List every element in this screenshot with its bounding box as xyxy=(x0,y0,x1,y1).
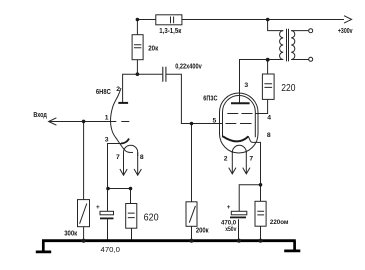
wire secondary bottom lead xyxy=(291,59,309,61)
svg-text:7: 7 xyxy=(249,155,253,162)
arrow +300v xyxy=(344,16,352,23)
svg-text:6П3С: 6П3С xyxy=(203,96,217,103)
wire screen resistor bottom to pin4 xyxy=(255,99,267,113)
node cathode1 left xyxy=(106,187,110,191)
svg-text:470,0: 470,0 xyxy=(101,247,121,254)
ground bus xyxy=(42,239,296,242)
wire input line xyxy=(50,121,116,123)
tube 6N8S envelope arc xyxy=(111,88,134,153)
svg-text:5: 5 xyxy=(213,118,217,125)
svg-text:Вход: Вход xyxy=(33,112,47,119)
resistor 300k xyxy=(78,200,90,227)
resistor 220 screen xyxy=(262,74,274,99)
node B+ / primary xyxy=(266,18,270,22)
wire anode node to coupling cap xyxy=(137,73,162,75)
tube 6P3S inner envelope xyxy=(223,96,256,138)
wire 20k top lead xyxy=(136,20,138,35)
svg-text:+: + xyxy=(96,204,100,211)
resistor 200k xyxy=(186,202,197,227)
svg-text:6Н8С: 6Н8С xyxy=(96,89,111,96)
wire cathode2 to junction xyxy=(248,136,260,185)
svg-text:1,3-1,5к: 1,3-1,5к xyxy=(159,28,181,35)
resistor 620 xyxy=(126,204,137,229)
wire anode lead 6N8S xyxy=(123,74,138,102)
svg-text:7: 7 xyxy=(116,154,120,161)
svg-text:х50v: х50v xyxy=(225,226,237,233)
arrow input xyxy=(49,118,57,125)
tube 6N8S heater arrow 8 xyxy=(134,152,141,175)
ground bus right hook xyxy=(284,241,300,251)
wire primary top drop xyxy=(268,20,284,31)
node B+ / 20k xyxy=(136,18,140,22)
wire B+ rail top xyxy=(137,19,344,21)
transformer core xyxy=(287,29,289,62)
terminal bottom xyxy=(309,57,313,61)
terminal top xyxy=(309,29,313,33)
wire secondary top lead xyxy=(291,30,309,32)
resistor 20k xyxy=(132,35,143,60)
capacitor 0,22x400v xyxy=(163,67,166,82)
svg-text:620: 620 xyxy=(144,212,159,224)
tube 6P3S outer envelope xyxy=(220,93,259,153)
svg-text:3: 3 xyxy=(105,137,109,144)
svg-text:8: 8 xyxy=(140,154,144,161)
capacitor 470,0 x50v electrolytic xyxy=(227,204,247,218)
wire cathode1 xyxy=(108,144,131,189)
svg-text:+: + xyxy=(227,204,231,211)
wire 620 top lead xyxy=(130,189,132,204)
svg-text:4: 4 xyxy=(267,114,271,121)
wire 220om top lead xyxy=(260,185,262,202)
tube 6P3S heater arch xyxy=(232,145,246,153)
svg-text:2: 2 xyxy=(116,86,120,93)
node grid1 xyxy=(82,120,86,124)
svg-text:8: 8 xyxy=(267,132,271,139)
resistor 220om xyxy=(255,201,266,226)
wire 220om bottom lead xyxy=(260,226,262,240)
wire 20k bottom lead xyxy=(136,60,138,74)
tube 6N8S heater arrow 7 xyxy=(120,152,127,175)
tube 6P3S heater arrow 2 xyxy=(229,152,236,174)
svg-text:20к: 20к xyxy=(148,46,158,53)
wire grid2 dashes xyxy=(226,123,252,125)
ground bus left hook xyxy=(36,241,51,252)
svg-text:220ом: 220ом xyxy=(270,219,289,226)
wire cap470 bottom lead xyxy=(107,219,109,240)
tube 6P3S heater arrow 7 xyxy=(243,152,250,174)
tube 6P3S screen grid dashes xyxy=(227,113,252,115)
transformer secondary winding xyxy=(291,31,295,60)
node anode1 xyxy=(136,72,140,76)
capacitor 470,0 electrolytic xyxy=(96,204,114,219)
svg-text:3: 3 xyxy=(244,82,248,89)
wire coupling cap to grid2 xyxy=(166,74,222,123)
node cathode1 right xyxy=(129,187,133,191)
wire grid1 dash xyxy=(121,121,129,123)
tube 6P3S anode bar xyxy=(231,102,250,104)
svg-text:220: 220 xyxy=(281,82,295,94)
resistor R 1,3-1,5k xyxy=(156,15,182,25)
tube 6N8S cathode xyxy=(121,139,129,144)
tube 6N8S anode bar xyxy=(118,102,128,104)
svg-text:200к: 200к xyxy=(196,228,209,235)
wire cap x50v bottom lead xyxy=(238,219,240,240)
wire screen resistor top xyxy=(267,60,269,75)
svg-text:0,22х400v: 0,22х400v xyxy=(175,63,202,70)
bus node 200k xyxy=(189,239,193,243)
svg-text:2: 2 xyxy=(224,155,228,162)
svg-text:1: 1 xyxy=(105,115,109,122)
node cathode2 xyxy=(259,183,263,187)
wire 200k top lead xyxy=(191,124,193,202)
bus node 300k xyxy=(82,239,86,243)
transformer primary winding xyxy=(280,31,284,60)
tube 6P3S cathode smile xyxy=(223,136,249,141)
tube 6N8S heater arch xyxy=(124,145,138,156)
wire cathode junction to cap xyxy=(239,185,260,212)
wire 200k bottom lead xyxy=(191,226,193,240)
wire grid leak 300k lead xyxy=(83,122,85,200)
wire primary bottom to anode xyxy=(240,60,284,103)
bus node 220om xyxy=(258,239,262,243)
node anode2 / primary bottom xyxy=(266,58,270,62)
wire cap470 top lead xyxy=(107,189,109,212)
wire 300k bottom lead xyxy=(83,227,85,240)
wire 620 bottom lead xyxy=(131,228,133,240)
svg-text:300к: 300к xyxy=(64,231,77,238)
svg-text:+300v: +300v xyxy=(338,28,353,35)
bus node cap x50v xyxy=(237,239,241,243)
node grid2 xyxy=(190,122,194,126)
